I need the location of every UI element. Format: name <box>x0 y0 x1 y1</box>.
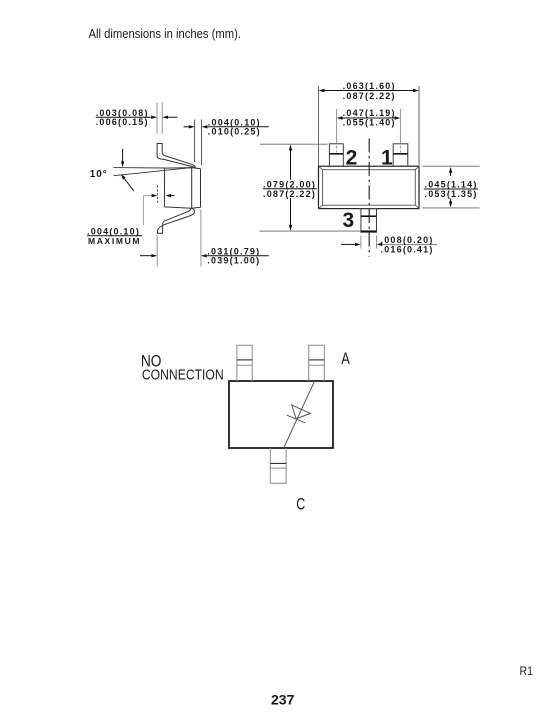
dimension .004/.010 lead tip to body <box>184 118 269 166</box>
dimension .047/.055 pin pitch <box>337 108 401 128</box>
dimension .031/.039 lead span <box>140 210 269 267</box>
top gull-wing lead <box>157 144 195 168</box>
svg-text:1: 1 <box>381 146 393 169</box>
dimension .063/.087 body width <box>319 81 420 166</box>
10 degree lead angle callout <box>90 149 192 191</box>
svg-text:2: 2 <box>346 146 358 169</box>
svg-text:.079(2.00): .079(2.00) <box>263 179 316 189</box>
no-connection lead (top left) <box>237 345 252 381</box>
dimension .004 MAXIMUM standoff <box>87 186 175 246</box>
dimension .045/.053 body height (right) <box>423 166 480 208</box>
svg-text:10°: 10° <box>90 169 108 180</box>
svg-text:.063(1.60): .063(1.60) <box>343 81 396 91</box>
svg-text:MAXIMUM: MAXIMUM <box>88 236 141 246</box>
body outer outline <box>319 166 420 208</box>
body corner chamfers <box>319 166 420 208</box>
pin 2 centerline extension <box>337 109 401 153</box>
package body side profile <box>164 168 200 209</box>
svg-text:R1: R1 <box>520 664 534 678</box>
svg-text:CONNECTION: CONNECTION <box>142 366 224 383</box>
svg-text:.087(2.22): .087(2.22) <box>263 189 316 199</box>
pin 1 <box>393 144 408 166</box>
dimension .079/.087 overall height (left) <box>260 144 362 231</box>
svg-text:All dimensions in inches (mm).: All dimensions in inches (mm). <box>89 26 242 41</box>
svg-text:.047(1.19): .047(1.19) <box>343 108 396 118</box>
pin 3 <box>361 209 377 233</box>
bottom gull-wing lead <box>158 208 195 233</box>
dimension .003/.006 lead thickness <box>96 103 178 134</box>
package vertical centerline <box>368 139 370 257</box>
svg-text:C: C <box>296 495 305 513</box>
svg-text:.055(1.40): .055(1.40) <box>343 117 396 127</box>
cathode lead (bottom) <box>270 448 286 483</box>
diode D1 symbol <box>287 405 311 423</box>
svg-text:.016(0.41): .016(0.41) <box>381 244 434 254</box>
svg-text:.010(0.25): .010(0.25) <box>208 127 261 137</box>
body inner outline <box>323 170 416 206</box>
svg-text:.053(1.35): .053(1.35) <box>425 189 478 199</box>
pin 1 centerline extension <box>399 109 401 143</box>
internal wire anode to cathode <box>284 381 315 448</box>
svg-text:3: 3 <box>343 209 355 232</box>
anode lead (top right) <box>309 345 325 381</box>
svg-text:.087(2.22): .087(2.22) <box>343 91 396 101</box>
svg-text:237: 237 <box>271 692 295 708</box>
package outline box <box>229 381 333 448</box>
svg-text:A: A <box>341 350 350 368</box>
pin 2 <box>329 144 343 166</box>
svg-text:.006(0.15): .006(0.15) <box>96 117 149 127</box>
dimension .008/.016 pin 3 width <box>341 235 437 254</box>
svg-text:.039(1.00): .039(1.00) <box>207 256 260 266</box>
